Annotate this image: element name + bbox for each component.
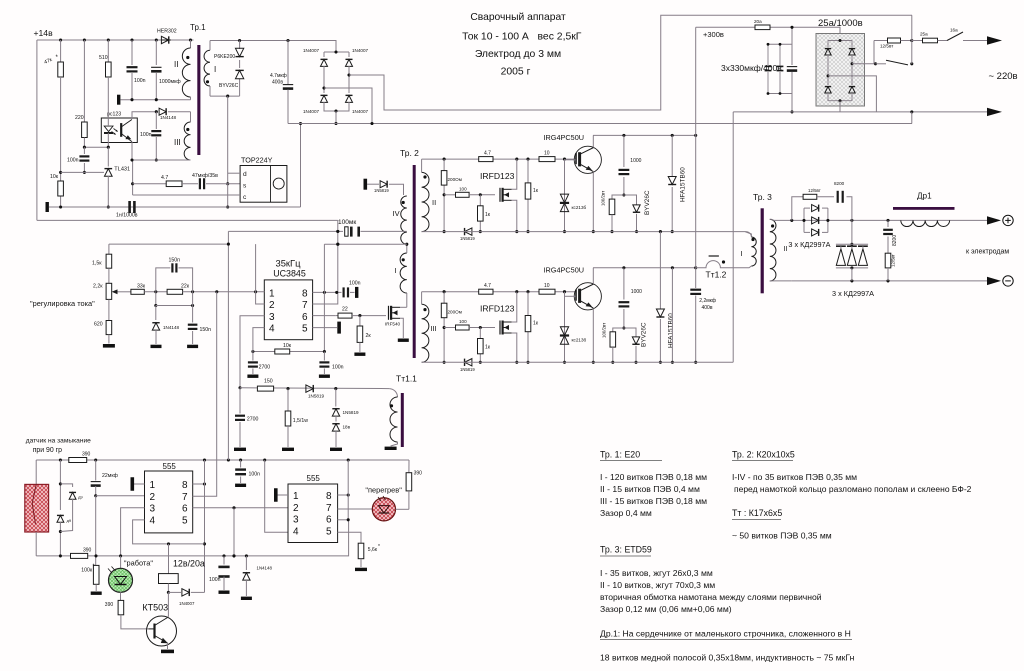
svg-text:10: 10 bbox=[544, 283, 550, 289]
relay coil bbox=[159, 544, 179, 594]
bridge 1N4007 bottom-right diode bbox=[336, 75, 369, 114]
rectifier 3x KD2997A bbox=[788, 205, 830, 249]
svg-text:II: II bbox=[174, 60, 178, 69]
svg-text:1N5819: 1N5819 bbox=[460, 236, 475, 241]
wire driver mid row bbox=[444, 186, 495, 197]
svg-text:10к: 10к bbox=[283, 343, 292, 349]
svg-text:при 90 гр: при 90 гр bbox=[33, 447, 62, 454]
diode 1N4007 relay bbox=[168, 589, 204, 606]
wire divider tap to TL431 bbox=[59, 171, 104, 174]
label k elektrodam bbox=[966, 249, 1009, 256]
capacitor 1000 snubber upper bbox=[619, 135, 642, 196]
svg-text:220: 220 bbox=[75, 115, 84, 121]
svg-text:"перегрев": "перегрев" bbox=[365, 485, 402, 494]
switch bypass contact bbox=[876, 60, 914, 65]
wire pin2 net bbox=[256, 244, 265, 304]
svg-text:BYV26C: BYV26C bbox=[644, 190, 651, 215]
svg-text:2к: 2к bbox=[366, 333, 372, 339]
wire +300 bus down bbox=[695, 27, 697, 267]
svg-text:100n: 100n bbox=[134, 78, 146, 84]
svg-text:1: 1 bbox=[293, 491, 299, 502]
svg-text:*: * bbox=[378, 544, 380, 550]
svg-text:8: 8 bbox=[326, 491, 332, 502]
svg-text:555: 555 bbox=[307, 474, 321, 483]
pot feedback row pin1 bbox=[118, 284, 265, 295]
svg-text:3 х КД2997А: 3 х КД2997А bbox=[832, 289, 874, 298]
transformer Tr1 winding III bbox=[174, 122, 191, 160]
svg-text:Тр. 2: Тр. 2 bbox=[400, 148, 419, 158]
capacitor 1n1000v bbox=[116, 201, 138, 219]
pot regulirovka label bbox=[30, 299, 95, 308]
notes column 1 bbox=[600, 450, 707, 519]
svg-text:к электродам: к электродам bbox=[966, 249, 1009, 256]
capacitor 1000 snubber lower bbox=[619, 268, 643, 330]
resistor 10 gate bbox=[539, 151, 555, 162]
resistor 620 pot bottom bbox=[94, 321, 115, 348]
svg-text:III: III bbox=[174, 138, 181, 147]
svg-text:1000: 1000 bbox=[631, 289, 642, 295]
bridge 1N4007 bottom-left diode bbox=[303, 88, 336, 114]
arrow output plus bbox=[987, 216, 1001, 224]
svg-text:200Ом: 200Ом bbox=[448, 310, 462, 315]
svg-text:100n: 100n bbox=[349, 281, 361, 287]
freewheel 3x KD2997A bbox=[832, 220, 874, 298]
transistor IRFD123 bbox=[500, 188, 512, 202]
svg-text:~ 50 витков ПЭВ 0,35 мм: ~ 50 витков ПЭВ 0,35 мм bbox=[732, 531, 832, 541]
svg-text:7: 7 bbox=[326, 503, 332, 514]
resistor 1k driver low bbox=[478, 195, 491, 233]
svg-text:12/5вт: 12/5вт bbox=[808, 188, 821, 193]
svg-text:12/5вт: 12/5вт bbox=[891, 254, 896, 267]
capacitor 2700 timing bbox=[247, 352, 270, 378]
svg-text:КТ503: КТ503 bbox=[142, 603, 168, 613]
transistor IGBT lower bbox=[565, 268, 602, 364]
optocoupler pc123 bbox=[101, 112, 137, 143]
svg-text:Тр. 3: ETD59: Тр. 3: ETD59 bbox=[600, 545, 652, 555]
resistor 1k driver low bbox=[478, 328, 491, 364]
svg-text:кс213б: кс213б bbox=[572, 205, 587, 210]
svg-text:3х330мкф/400в: 3х330мкф/400в bbox=[721, 63, 782, 73]
svg-text:100n: 100n bbox=[209, 577, 221, 583]
label 220v bbox=[989, 71, 1018, 82]
capacitor 100n timing bbox=[319, 352, 344, 378]
svg-text:I: I bbox=[214, 65, 216, 74]
wire center tap bbox=[324, 243, 406, 246]
svg-text:47мкф/35в: 47мкф/35в bbox=[192, 173, 218, 179]
resistor 150 cs bbox=[257, 379, 273, 392]
svg-text:4: 4 bbox=[150, 516, 156, 527]
svg-text:18 витков медной полосой 0,35х: 18 витков медной полосой 0,35х18мм, инду… bbox=[600, 653, 855, 663]
wire vref rail down bbox=[323, 244, 325, 351]
wire driver top rail bbox=[422, 158, 576, 161]
svg-text:8200: 8200 bbox=[892, 235, 898, 246]
fuse 20a bbox=[754, 19, 770, 30]
transformer Tr1 label bbox=[190, 23, 206, 32]
svg-text:1N4007: 1N4007 bbox=[303, 109, 320, 114]
svg-text:35кГц: 35кГц bbox=[276, 258, 302, 269]
svg-text:3: 3 bbox=[150, 503, 156, 514]
svg-text:2005 г: 2005 г bbox=[501, 67, 531, 78]
svg-text:2,2мкф: 2,2мкф bbox=[699, 298, 716, 304]
svg-text:1,5к: 1,5к bbox=[92, 261, 102, 267]
suppressor ks213b bbox=[560, 159, 587, 233]
wire pin6 out bbox=[313, 315, 336, 317]
svg-text:II - 10 витков, жгут 70х0,3 мм: II - 10 витков, жгут 70х0,3 мм bbox=[600, 580, 715, 590]
svg-text:1,5/1w: 1,5/1w bbox=[293, 418, 309, 424]
svg-text:BYV26C: BYV26C bbox=[219, 83, 239, 89]
svg-text:*: * bbox=[93, 564, 95, 570]
suppressor ks213b bbox=[560, 292, 587, 364]
svg-text:Зазор 0,4 мм: Зазор 0,4 мм bbox=[600, 508, 652, 518]
svg-text:22: 22 bbox=[342, 307, 348, 313]
svg-text:BYV26C: BYV26C bbox=[641, 322, 648, 347]
bridge 25a internal diodes bbox=[825, 39, 855, 102]
resistor 200om driver bbox=[441, 292, 462, 364]
wire timer1 pin7 from UC3845 bbox=[193, 292, 217, 497]
wire pin4 loop bbox=[253, 328, 264, 352]
svg-text:3: 3 bbox=[293, 515, 299, 526]
wire collector rail lower bbox=[593, 266, 697, 269]
terminal plus bbox=[1003, 215, 1013, 225]
wire pin3 current sense bbox=[238, 316, 264, 390]
svg-text:2: 2 bbox=[293, 503, 299, 514]
svg-text:150n: 150n bbox=[200, 327, 212, 333]
current transformer Tt1.1 bbox=[385, 389, 404, 450]
resistor 4.7 top224 bbox=[133, 175, 183, 187]
svg-text:1N4148: 1N4148 bbox=[257, 566, 273, 571]
resistor 510 bbox=[99, 40, 111, 77]
svg-text:100n: 100n bbox=[249, 472, 261, 478]
fuse 25a bbox=[912, 32, 938, 43]
wire mains switch vertical bbox=[911, 15, 913, 123]
svg-text:7: 7 bbox=[302, 300, 308, 311]
svg-text:8: 8 bbox=[182, 480, 188, 491]
wire aux column lower bbox=[671, 268, 674, 364]
transformer Tr2 winding I bbox=[395, 243, 409, 308]
wire relay supply rail bbox=[36, 520, 348, 558]
svg-text:II: II bbox=[784, 246, 788, 253]
svg-text:Тт : К17х6х5: Тт : К17х6х5 bbox=[732, 508, 782, 518]
wire bridge mid-left tap bbox=[324, 88, 374, 125]
ground bar aux 14v bbox=[117, 95, 191, 105]
wire opto collector to diode 1N4148 bbox=[132, 112, 158, 119]
svg-text:12/5вт: 12/5вт bbox=[880, 44, 894, 49]
transistor IGBT upper bbox=[565, 135, 602, 233]
capacitor 150n fb bbox=[187, 306, 211, 349]
current transformer Tt1.2 bbox=[696, 256, 746, 280]
arrow output minus bbox=[987, 277, 1001, 285]
wire top224 d stub bbox=[228, 172, 240, 174]
svg-text:+300в: +300в bbox=[703, 30, 724, 39]
diode 1N5819 rail bbox=[460, 228, 475, 241]
svg-text:Др.1: На сердечнике от маленьк: Др.1: На сердечнике от маленького строчн… bbox=[600, 629, 851, 639]
inductor Dr1 winding bbox=[901, 220, 950, 226]
svg-text:1к: 1к bbox=[533, 321, 539, 327]
diode HFA15TB60 lower bbox=[656, 232, 674, 364]
svg-text:7: 7 bbox=[182, 492, 188, 503]
resistor 390 peregrev bbox=[406, 460, 422, 509]
svg-text:pc123: pc123 bbox=[107, 112, 121, 118]
capacitor 4.7uF 400v bbox=[270, 40, 293, 124]
svg-text:1N4007: 1N4007 bbox=[303, 48, 320, 53]
potentiometer 2.2k bbox=[93, 283, 118, 320]
current transformer Tt1.1 label bbox=[396, 374, 417, 384]
wire mains N long bbox=[288, 123, 912, 125]
inductor Dr1 core bar bbox=[893, 207, 955, 210]
svg-text:+14в: +14в bbox=[34, 28, 54, 38]
resistor 47k bbox=[43, 40, 63, 207]
bridge 25a 1000v label bbox=[818, 18, 863, 29]
svg-text:6: 6 bbox=[182, 503, 188, 514]
arrow mains L bbox=[987, 36, 1002, 44]
ground pin1 timer1 bbox=[131, 477, 145, 491]
svg-text:1к: 1к bbox=[485, 345, 491, 351]
svg-text:IRG4PC50U: IRG4PC50U bbox=[544, 133, 585, 142]
capacitor 47uF 35v bbox=[182, 173, 240, 189]
wire Vcc to pin7 bbox=[313, 220, 340, 304]
svg-text:100: 100 bbox=[459, 186, 467, 191]
wire hv rail to bridge bbox=[210, 39, 336, 42]
wire left border vertical bbox=[36, 40, 38, 220]
wire minus rail bbox=[733, 110, 987, 113]
resistor 12/5vt inrush bbox=[874, 38, 913, 64]
capacitor 100uF vcc bbox=[228, 219, 406, 237]
svg-text:1N4007: 1N4007 bbox=[179, 601, 195, 606]
wire gate from pin6 bbox=[336, 307, 386, 319]
svg-text:510: 510 bbox=[99, 55, 108, 61]
svg-text:III - 15 витков ПЭВ 0,18 мм: III - 15 витков ПЭВ 0,18 мм bbox=[600, 496, 707, 506]
svg-text:2700: 2700 bbox=[247, 417, 259, 423]
svg-text:100мк: 100мк bbox=[338, 219, 356, 226]
svg-text:100: 100 bbox=[459, 319, 467, 324]
supply bar 14v tr2 bbox=[364, 179, 368, 190]
svg-text:390: 390 bbox=[414, 471, 423, 477]
svg-text:1N4148: 1N4148 bbox=[160, 115, 177, 120]
wire opto emitter down bbox=[130, 142, 133, 162]
svg-text:100n: 100n bbox=[332, 365, 344, 371]
capacitor 100n bias bbox=[67, 147, 89, 174]
notes column 2 bbox=[732, 450, 972, 541]
svg-text:д9: д9 bbox=[67, 518, 72, 523]
wire trigger divider vertical bbox=[232, 508, 235, 558]
label IRG4PC50U upper bbox=[544, 133, 585, 142]
resistor 100/2vt lower bbox=[602, 323, 624, 364]
zener 18v clamp bbox=[330, 424, 351, 451]
wire pin4 loop timer1 bbox=[133, 520, 205, 546]
svg-text:5,6к: 5,6к bbox=[368, 547, 378, 553]
svg-text:1к: 1к bbox=[533, 188, 539, 194]
ground pin5 bbox=[313, 322, 341, 334]
LED rabota bbox=[108, 556, 153, 601]
svg-text:I - 35 витков, жгут 26х0,3 мм: I - 35 витков, жгут 26х0,3 мм bbox=[600, 568, 713, 578]
svg-text:100/2вт: 100/2вт bbox=[602, 323, 607, 338]
svg-text:Зазор 0,12 мм (0,06 мм+0,06 м: Зазор 0,12 мм (0,06 мм+0,06 мм) bbox=[600, 604, 732, 614]
wire pin8 vref bbox=[313, 291, 342, 294]
label IRFD123 lower bbox=[480, 304, 515, 314]
capacitor 100n aux bbox=[127, 40, 146, 100]
svg-text:100n: 100n bbox=[140, 132, 152, 138]
svg-text:d: d bbox=[243, 171, 247, 178]
svg-text:200Ом: 200Ом bbox=[448, 177, 462, 182]
wire winding III top lead bbox=[190, 112, 192, 122]
svg-text:HFA15TB60: HFA15TB60 bbox=[668, 313, 675, 348]
wire minus bus down bbox=[732, 112, 734, 362]
svg-text:I - 120 витков ПЭВ 0,18 мм: I - 120 витков ПЭВ 0,18 мм bbox=[600, 472, 707, 482]
transformer Tr3 winding II bbox=[770, 219, 792, 281]
wire 555 supply rail bbox=[36, 458, 409, 461]
svg-text:P6KE200: P6KE200 bbox=[214, 54, 235, 60]
diode P6KE200 bbox=[214, 48, 244, 60]
svg-text:1: 1 bbox=[150, 480, 156, 491]
transformer Tr2 winding IV bbox=[393, 196, 407, 244]
svg-text:390: 390 bbox=[83, 548, 92, 554]
transformer Tr2 core bbox=[413, 165, 416, 358]
svg-text:TL431: TL431 bbox=[114, 167, 130, 173]
capacitor 100n vref bbox=[344, 281, 361, 298]
wire IRFD123 drain-source bbox=[512, 159, 519, 233]
resistor 100/2vt upper bbox=[601, 191, 624, 233]
svg-text:20а: 20а bbox=[754, 19, 762, 24]
IC UC3845 bbox=[264, 258, 312, 340]
svg-text:Тр. 2: К20х10х5: Тр. 2: К20х10х5 bbox=[732, 450, 795, 460]
capacitor 8200 output bbox=[883, 220, 898, 253]
wire pin2 timer1 bbox=[96, 495, 145, 497]
svg-text:8200: 8200 bbox=[834, 181, 845, 186]
capacitor 2.2uF 400v bbox=[690, 268, 716, 364]
wire R510 through opto led bbox=[107, 77, 109, 147]
wire emitter rail lower bbox=[422, 361, 734, 363]
wire bottom border to UC3845 Vcc bbox=[37, 219, 338, 221]
capacitor 100p aux2 bbox=[209, 556, 230, 594]
wire bridge minus to rail bbox=[839, 101, 841, 112]
svg-text:2: 2 bbox=[150, 492, 156, 503]
regulator TL431 bbox=[104, 147, 130, 208]
ground pin1 timer2 bbox=[274, 488, 288, 502]
svg-text:25а/1000в: 25а/1000в bbox=[818, 18, 863, 29]
wire comp row bbox=[154, 292, 194, 307]
svg-text:II: II bbox=[432, 198, 436, 207]
svg-text:22к: 22к bbox=[181, 284, 190, 290]
capacitor 100n under rail bbox=[235, 460, 260, 487]
junction winding I return bbox=[226, 95, 229, 209]
svg-text:1н/1000в: 1н/1000в bbox=[116, 213, 138, 219]
transformer Tr2 label bbox=[400, 148, 419, 158]
diode BYV26C tr1 bbox=[219, 70, 244, 89]
arrow mains N bbox=[987, 108, 1002, 116]
svg-text:~ 220в: ~ 220в bbox=[989, 71, 1018, 82]
svg-text:100к: 100к bbox=[81, 568, 93, 574]
bridge 1N4007 top-right diode bbox=[345, 48, 368, 75]
svg-text:д9: д9 bbox=[78, 494, 83, 499]
svg-text:12в/20а: 12в/20а bbox=[173, 559, 205, 569]
svg-text:1000мкф: 1000мкф bbox=[159, 79, 181, 85]
zener 1N5819 clamp bbox=[332, 389, 359, 422]
svg-text:Др1: Др1 bbox=[917, 192, 932, 201]
svg-text:IV: IV bbox=[393, 209, 400, 218]
svg-text:1N5819: 1N5819 bbox=[374, 188, 389, 193]
switch 16a bbox=[938, 28, 988, 41]
resistor 10 gate bbox=[539, 283, 555, 294]
wire IRFD123 drain-source bbox=[512, 292, 519, 364]
svg-text:кс213б: кс213б bbox=[572, 338, 587, 343]
notes tr3 bbox=[600, 545, 822, 615]
svg-text:2: 2 bbox=[269, 300, 275, 311]
svg-text:Тр. 3: Тр. 3 bbox=[753, 192, 772, 202]
sensor thermal box bbox=[25, 460, 49, 556]
svg-text:390: 390 bbox=[82, 452, 91, 458]
svg-text:"регулировка тока": "регулировка тока" bbox=[30, 299, 95, 308]
capacitor 330uF main bbox=[787, 26, 797, 114]
IC TOP224Y bbox=[240, 156, 287, 203]
svg-text:1: 1 bbox=[269, 289, 275, 300]
capacitor 150p feedback bbox=[156, 258, 193, 292]
wire opto led cathode row bbox=[83, 146, 110, 149]
label IRG4PC50U lower bbox=[544, 266, 585, 275]
svg-text:4: 4 bbox=[293, 527, 299, 538]
transistor IRFD123 bbox=[500, 321, 512, 335]
wire TOP224Y drain from bridge bbox=[299, 122, 302, 207]
svg-text:4: 4 bbox=[269, 324, 275, 335]
svg-text:1к: 1к bbox=[485, 212, 491, 218]
wire bridge AC right bbox=[852, 62, 877, 65]
svg-text:400в: 400в bbox=[702, 305, 713, 311]
svg-text:150п: 150п bbox=[169, 258, 181, 264]
svg-text:1000: 1000 bbox=[630, 158, 641, 164]
svg-text:390: 390 bbox=[105, 602, 114, 608]
wire timer1 pin8 stub bbox=[193, 482, 206, 485]
svg-text:HFA15TB60: HFA15TB60 bbox=[680, 167, 687, 202]
resistor 220 bbox=[75, 40, 87, 147]
transformer Tr3 winding I bbox=[741, 232, 757, 268]
wire +300v rail top bbox=[696, 27, 840, 40]
transformer Tr2 winding III bbox=[422, 292, 437, 363]
resistor 2k gate bbox=[354, 316, 371, 356]
capacitor 2700 cs bbox=[234, 388, 259, 451]
svg-text:I: I bbox=[395, 266, 397, 275]
ground rail aux bbox=[46, 202, 301, 212]
transformer Tr2 winding II bbox=[422, 159, 437, 232]
svg-text:4.7мкф: 4.7мкф bbox=[270, 73, 287, 79]
svg-text:4.7: 4.7 bbox=[484, 283, 491, 289]
resistor 5.6k timer2 bbox=[355, 543, 380, 571]
svg-text:III: III bbox=[431, 324, 437, 333]
svg-text:100n: 100n bbox=[67, 158, 79, 164]
svg-text:Тр.1: Тр.1 bbox=[190, 23, 206, 32]
diode HFA15TB60 upper bbox=[668, 135, 686, 233]
svg-text:16а: 16а bbox=[950, 28, 958, 33]
svg-text:4.7: 4.7 bbox=[161, 175, 168, 181]
wire timer2 pin5 bbox=[338, 532, 361, 543]
label 12v20a bbox=[173, 559, 205, 569]
svg-text:IRFD123: IRFD123 bbox=[480, 304, 515, 314]
resistor 390 led bbox=[105, 600, 149, 629]
diode 1N5819 cs bbox=[306, 385, 325, 399]
diode 1N4148 tr1 bbox=[155, 108, 191, 120]
svg-text:2700: 2700 bbox=[259, 365, 271, 371]
svg-text:18в: 18в bbox=[343, 425, 351, 430]
wire +14v top rail bbox=[37, 39, 194, 41]
title text bbox=[462, 12, 582, 78]
bridge 25a hatched box bbox=[816, 34, 865, 107]
resistor 200om driver bbox=[441, 159, 462, 233]
bridge 1N4007 top-left diode bbox=[303, 48, 349, 88]
resistor 1k gate2 bbox=[525, 159, 539, 233]
diode d9 sensor 1 bbox=[57, 460, 72, 556]
diode 1N5819 rail bbox=[460, 359, 475, 372]
svg-text:перед намоткой кольцо разломан: перед намоткой кольцо разломано пополам … bbox=[734, 484, 972, 494]
svg-text:150: 150 bbox=[264, 379, 273, 385]
svg-text:I: I bbox=[741, 249, 743, 258]
